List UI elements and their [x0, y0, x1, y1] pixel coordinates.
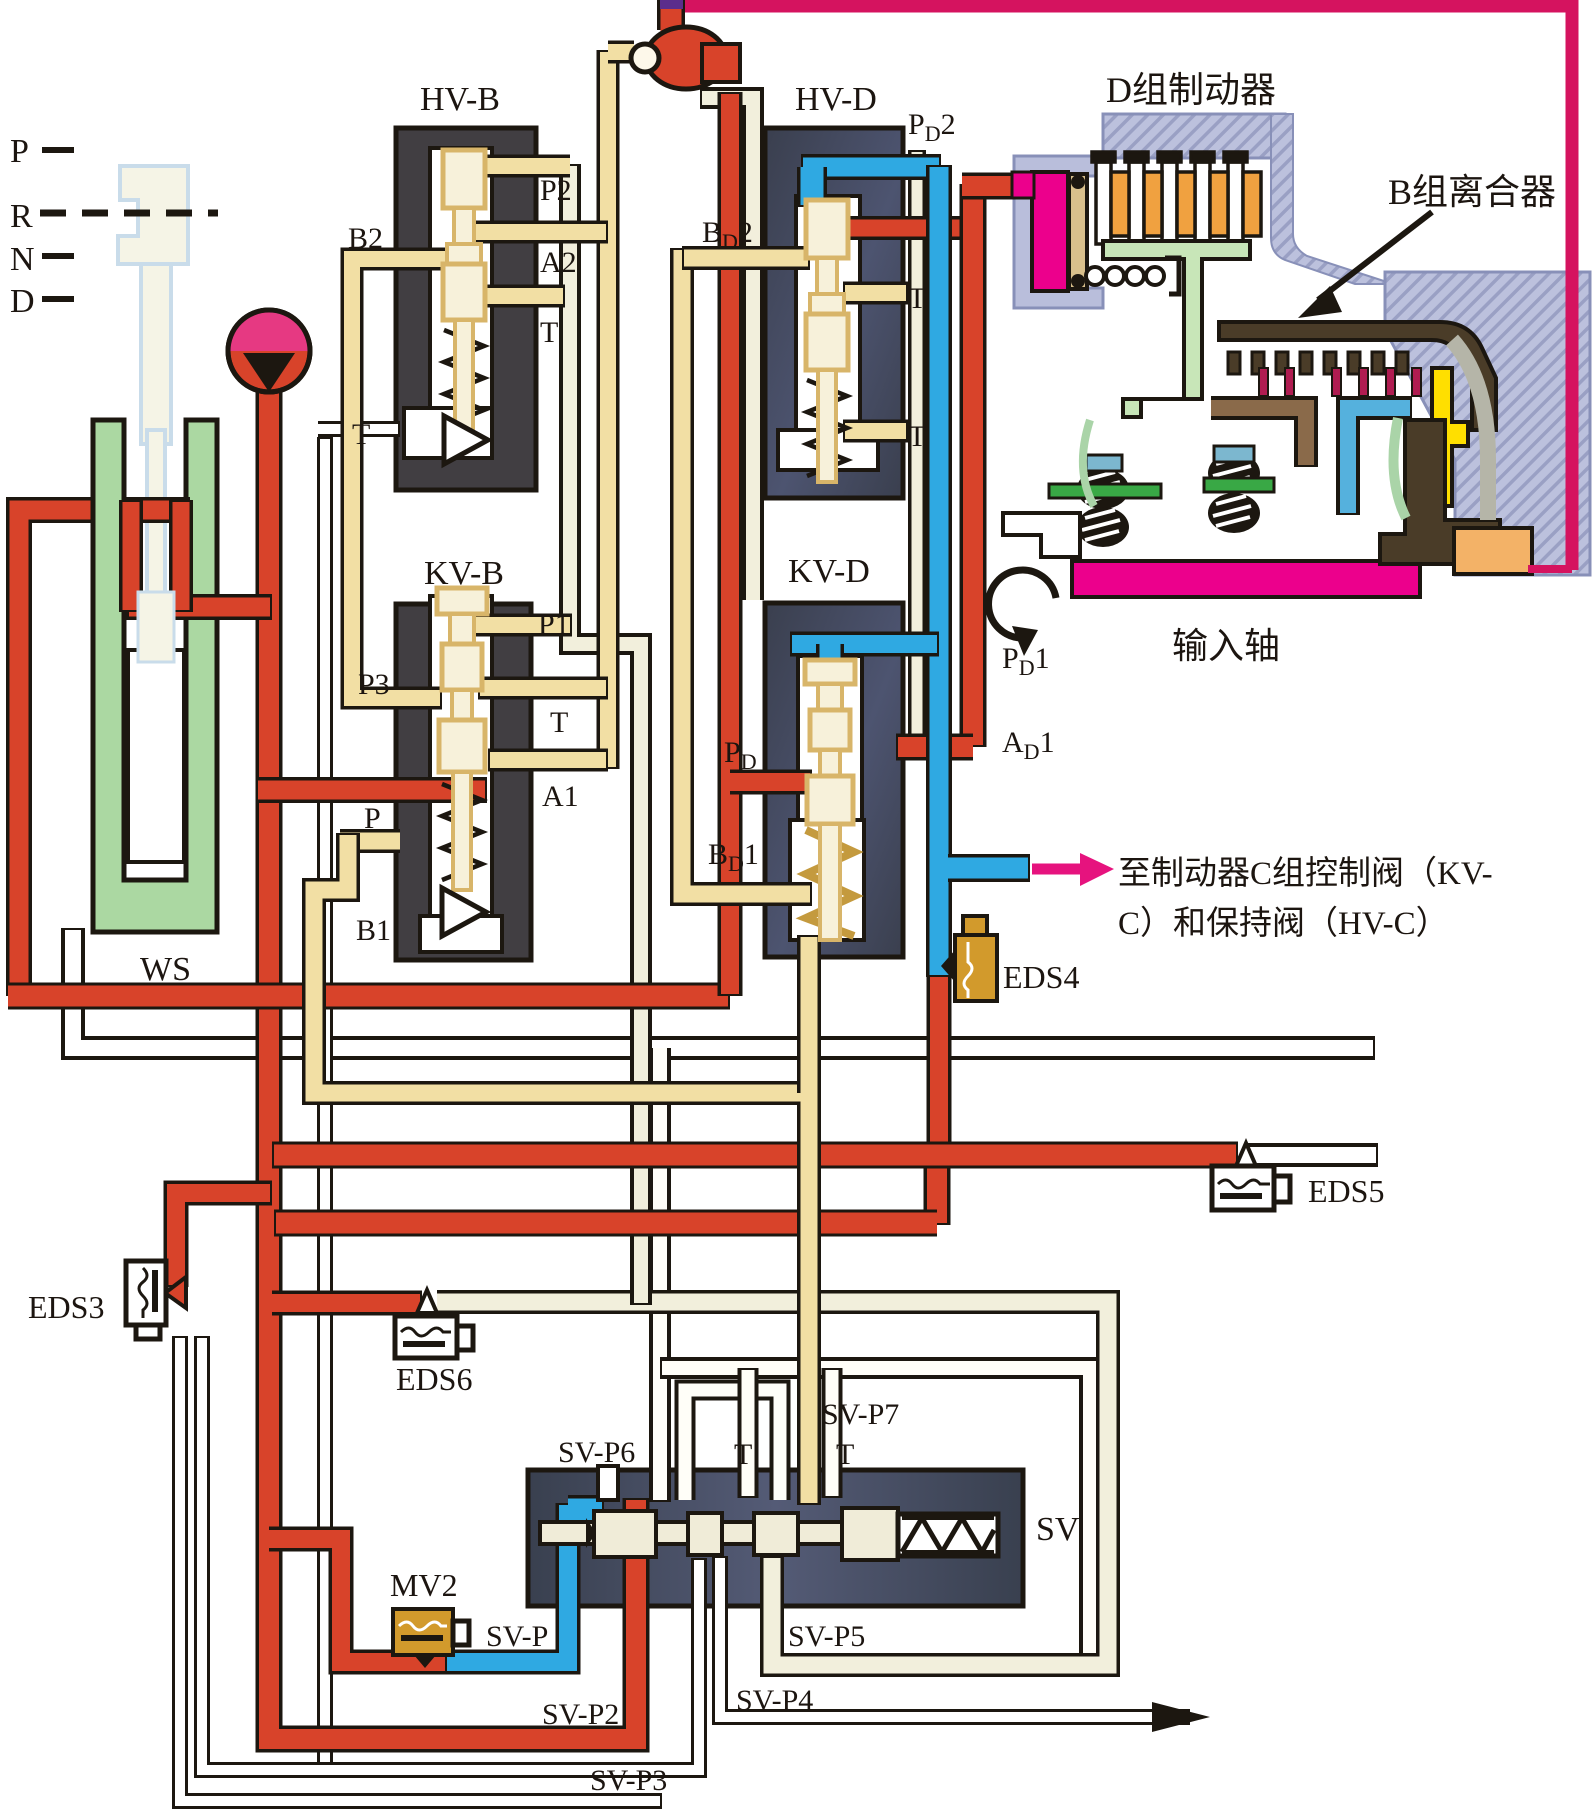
- wire red A-D1 line: [896, 734, 973, 761]
- wire blue main vertical to EDS4: [926, 165, 952, 977]
- pale green hook: [1394, 418, 1407, 518]
- svg-text:SV-P5: SV-P5: [788, 1620, 865, 1653]
- housing hatched right big region: [1385, 272, 1590, 575]
- svg-text:A2: A2: [540, 246, 577, 279]
- svg-text:A1: A1: [542, 780, 579, 813]
- wire red second pump vertical to bar A: [718, 92, 743, 996]
- svg-text:输入轴: 输入轴: [1172, 626, 1280, 666]
- pump node top with check ball: [657, 0, 685, 30]
- wire white SV top small loop: [685, 1390, 780, 1500]
- svg-text:KV-B: KV-B: [424, 555, 504, 592]
- wire yellow B1 loop to bottom manifold and SV-P7 riser: [314, 833, 809, 1505]
- solenoid EDS6: [395, 1316, 473, 1358]
- wire red branch to EDS3: [176, 1193, 272, 1287]
- wire white SV inner loop top and right: [660, 1368, 1090, 1662]
- wire red P line into KV-B: [258, 777, 487, 803]
- svg-text:T: T: [734, 1438, 752, 1471]
- wire red EDS4 drop and right link verticals: [927, 972, 952, 1157]
- spool of valve SV horizontal: [540, 1466, 998, 1560]
- wire red main pump line down with bottom run to SV-P2: [269, 388, 636, 1739]
- wire yellow P1 line: [468, 614, 572, 637]
- svg-text:R: R: [10, 198, 33, 235]
- wire red right vertical to A-D1: [960, 184, 987, 747]
- svg-text:P1: P1: [538, 608, 570, 641]
- wire pale pipe left of HV-D: [700, 98, 753, 600]
- wire red bar A horizontal: [8, 983, 730, 1010]
- wire red WS inner right column: [169, 502, 193, 610]
- wire yellow HV-D T stub lower: [843, 420, 908, 443]
- svg-text:D: D: [10, 283, 35, 320]
- svg-text:T: T: [550, 706, 568, 739]
- wire white HV-B T stub: [318, 421, 400, 437]
- svg-text:SV-P7: SV-P7: [822, 1398, 899, 1431]
- wire red bar C: [274, 1210, 937, 1237]
- coil spring pair right: [1208, 453, 1260, 493]
- housing left bracket: [1014, 156, 1103, 308]
- valve HV-B body: [396, 128, 536, 490]
- svg-text:T: T: [908, 282, 926, 315]
- wire yellow B-D2 line into HV-D: [682, 246, 810, 270]
- spool of valve KV-B: [437, 588, 487, 936]
- wire red WS crossings over shell: [125, 500, 272, 612]
- wire white SV T riser 1: [738, 1368, 759, 1498]
- valve KV-B body: [396, 604, 531, 960]
- wire red bar B to EDS5: [272, 1142, 1238, 1169]
- friction plates D brake: [1092, 152, 1261, 244]
- wire white EDS5 tail pipe: [1244, 1143, 1378, 1167]
- arrow pointer to B clutch: [1318, 212, 1432, 300]
- svg-text:P: P: [10, 133, 29, 170]
- wire blue HV-D top manifold: [801, 154, 941, 180]
- wire blue SV-P tee inside SV: [568, 1495, 604, 1529]
- wire yellow KV-B T line: [478, 677, 608, 700]
- svg-text:HV-D: HV-D: [795, 81, 877, 118]
- arrow magenta to brake group C: [1032, 864, 1080, 875]
- magenta top supply line: [678, 6, 1572, 570]
- selector lever: [118, 166, 188, 264]
- svg-text:至制动器C组控制阀（KV-: 至制动器C组控制阀（KV-: [1118, 855, 1493, 892]
- wire red HV-D spool line to right vertical: [838, 216, 973, 240]
- wire blue MV2 to SV-P port: [445, 1503, 568, 1662]
- solenoid EDS3: [126, 1261, 166, 1339]
- wire white EDS3 inner pipe to SV-P3: [202, 1336, 699, 1770]
- svg-text:SV-P: SV-P: [486, 1620, 548, 1653]
- step bracket bottom left: [1003, 513, 1080, 557]
- green reaction plate and lever: [1103, 241, 1250, 417]
- return spring coils of D brake: [1086, 267, 1104, 285]
- input shaft magenta bar: [1072, 561, 1420, 597]
- svg-text:SV: SV: [1036, 1511, 1080, 1548]
- wire red WS left loop: [19, 510, 190, 996]
- svg-text:WS: WS: [140, 951, 191, 988]
- yellow shift fork: [1408, 368, 1468, 506]
- wire blue KV-D spool drop: [816, 644, 844, 684]
- arrow SV-P4 output: [1152, 1702, 1210, 1732]
- svg-text:N: N: [10, 241, 35, 278]
- svg-text:SV-P6: SV-P6: [558, 1436, 635, 1469]
- wire yellow SV-P7 upper riser from KV-D: [797, 935, 821, 1093]
- wire red P-D branch into KV-D: [730, 770, 812, 795]
- wire white main manifold horizontal: [73, 928, 1375, 1048]
- svg-text:B1: B1: [356, 914, 391, 947]
- spool of valve KV-D: [805, 660, 855, 940]
- valve KV-D body: [765, 603, 903, 957]
- spool of valve HV-B: [443, 150, 488, 464]
- svg-text:EDS4: EDS4: [1003, 959, 1079, 995]
- connector wedge at EDS5: [1236, 1143, 1256, 1166]
- wire white EDS3 outer bottom pipe: [180, 1336, 662, 1801]
- svg-text:P2: P2: [540, 174, 572, 207]
- grey band: [1452, 340, 1488, 520]
- wire blue branch to brake group C: [948, 854, 1030, 882]
- wire white long vertical to SV loop: [649, 1048, 671, 1502]
- svg-text:B2: B2: [348, 222, 383, 255]
- wire pale EDS6 line and outer SV loop: [437, 1302, 1108, 1665]
- wire yellow A1 line: [488, 749, 608, 772]
- valve HV-D body: [765, 128, 903, 498]
- wire red top stub to assembly: [962, 173, 1014, 200]
- coil spring pair left: [1077, 469, 1129, 509]
- blue caps on springs: [1086, 455, 1122, 471]
- svg-text:MV2: MV2: [390, 1567, 458, 1603]
- blue pipe member: [1348, 408, 1412, 515]
- svg-text:KV-D: KV-D: [788, 553, 870, 590]
- WS valve green shell: [93, 420, 217, 932]
- wire blue KV-D top manifold: [790, 632, 939, 657]
- connector wedge at EDS6: [417, 1290, 437, 1313]
- wire yellow B2 left and P3 drop: [352, 259, 470, 698]
- svg-text:T: T: [540, 316, 558, 349]
- piston magenta of D brake: [1032, 172, 1068, 291]
- solenoid EDS4: [941, 916, 997, 1001]
- wire yellow HV-B T stub: [468, 285, 565, 308]
- wire yellow P2 line: [468, 155, 570, 178]
- valve SV body: [528, 1470, 1023, 1606]
- wire yellow B-D2 vertical and B-D1 line: [682, 248, 812, 894]
- wire red branch to MV2: [269, 1539, 449, 1662]
- wire red branch to EDS6: [272, 1291, 422, 1316]
- svg-text:C）和保持阀（HV-C）: C）和保持阀（HV-C）: [1118, 905, 1449, 942]
- wire yellow B2-A2 cross line: [473, 221, 608, 244]
- svg-text:B组离合器: B组离合器: [1388, 172, 1556, 212]
- wire white SV T riser 2: [822, 1368, 843, 1498]
- wire white T-line from HV-B down: [317, 437, 333, 1772]
- pump pink circle with triangle: [228, 310, 310, 392]
- solenoid MV2: [393, 1609, 469, 1668]
- wire yellow HV-D T stub upper: [843, 282, 908, 305]
- wire yellow A2 vertical from pump ball to A1: [597, 50, 620, 769]
- svg-text:HV-B: HV-B: [420, 81, 500, 118]
- green shaft bars: [1049, 484, 1161, 498]
- wire yellow pump ball elbow: [608, 41, 634, 64]
- svg-text:EDS5: EDS5: [1308, 1173, 1384, 1209]
- svg-text:P: P: [364, 802, 381, 835]
- svg-text:T: T: [908, 420, 926, 453]
- brown pipe member: [1211, 399, 1315, 467]
- curved arrow P-D1: [989, 570, 1056, 638]
- wire pale P2 riser with jog down to EDS6 line: [570, 164, 641, 1305]
- wire red WS cross to main line: [125, 594, 272, 620]
- svg-text:EDS6: EDS6: [396, 1361, 472, 1397]
- wire white SV-P4 pipe with arrow: [720, 1556, 1190, 1717]
- wire blue HV-D spool drop: [797, 167, 827, 207]
- WS plunger: [128, 650, 184, 862]
- svg-text:T: T: [836, 1438, 854, 1471]
- svg-text:SV-P3: SV-P3: [590, 1764, 667, 1797]
- orange wheel block: [1454, 528, 1532, 574]
- rod tan of D brake: [1069, 174, 1087, 289]
- connector wedge red at EDS3: [165, 1277, 186, 1308]
- svg-text:P3: P3: [358, 668, 390, 701]
- wire yellow B1 port stub: [340, 829, 400, 853]
- solenoid EDS5: [1212, 1166, 1290, 1210]
- clutch pins crimson: [1259, 368, 1421, 396]
- magenta pressure stub into piston: [1012, 172, 1034, 198]
- housing hatched right descender band: [1271, 114, 1393, 284]
- svg-text:SV-P4: SV-P4: [736, 1684, 813, 1717]
- right clutch hub dark: [1380, 420, 1500, 564]
- svg-text:T: T: [352, 418, 370, 451]
- spool of valve HV-D: [806, 200, 848, 482]
- svg-text:EDS3: EDS3: [28, 1289, 104, 1325]
- svg-text:D组制动器: D组制动器: [1106, 70, 1276, 110]
- wire pale P-D2 pipe right of HV-D and KV-D: [908, 150, 926, 740]
- clutch drum B group: [1219, 322, 1496, 430]
- svg-text:SV-P2: SV-P2: [542, 1698, 619, 1731]
- wire red WS inner left column: [119, 502, 143, 610]
- housing hatched top block of D brake: [1103, 114, 1285, 158]
